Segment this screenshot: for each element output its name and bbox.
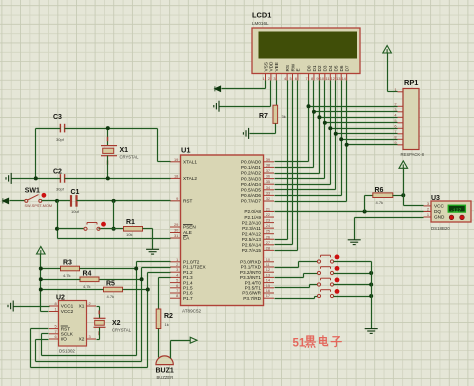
svg-text:DS1302: DS1302 (59, 349, 75, 354)
power terminal U3 (399, 161, 408, 169)
svg-text:P2.6/A14: P2.6/A14 (242, 243, 262, 248)
svg-text:30pf: 30pf (56, 187, 65, 192)
svg-text:P2.7/A15: P2.7/A15 (242, 248, 262, 253)
wire key 1 to rail (334, 261, 372, 263)
wire node D2 to RP1 pin 4 (320, 117, 398, 119)
wire power to RP1 pin 1 (387, 53, 389, 92)
svg-text:D6: D6 (339, 65, 344, 71)
mcu U1 body (181, 155, 264, 306)
svg-text:33: 33 (266, 190, 270, 195)
wire VCC rail (40, 254, 42, 312)
wire LCD D2 column to U1 P0.2 (319, 81, 321, 174)
resistor R6 (373, 193, 393, 198)
wire P1.2 to RST bus (148, 272, 171, 274)
wire C3 row (36, 128, 61, 130)
svg-text:38: 38 (266, 162, 270, 167)
wire R2 to buzzer (158, 329, 160, 358)
svg-text:ALE: ALE (183, 230, 192, 235)
push button KEY2 (317, 267, 333, 275)
wire LCD VDD to ground (270, 81, 272, 107)
svg-text:P0.6/AD6: P0.6/AD6 (241, 193, 261, 198)
sensor U3 leds (449, 215, 454, 220)
svg-text:3: 3 (89, 334, 91, 339)
svg-text:AT89C52: AT89C52 (182, 309, 202, 314)
svg-text:RESPACK-8: RESPACK-8 (401, 152, 425, 157)
svg-text:39: 39 (266, 157, 270, 162)
junction D6 (339, 137, 343, 141)
push button reset (84, 223, 100, 231)
junction R6 VCC (401, 193, 405, 197)
svg-text:4.7k: 4.7k (376, 200, 384, 205)
crystal X2 (97, 306, 100, 308)
junction D2 (317, 115, 321, 119)
svg-text:GND: GND (434, 215, 445, 220)
svg-text:X1: X1 (79, 304, 85, 309)
wire node D6 to RP1 pin 8 (342, 139, 398, 141)
resistor R3 (61, 266, 80, 271)
svg-text:2: 2 (394, 102, 396, 107)
wire C2 row (12, 178, 61, 180)
wire LCD VSS to terminal (265, 81, 267, 89)
wire node D5 to RP1 pin 7 (336, 133, 398, 135)
svg-text:25: 25 (266, 229, 270, 234)
ground keys (365, 329, 378, 334)
wire LCD D7 column to U1 P0.7 (346, 81, 348, 202)
junction key rail 3 (369, 283, 373, 287)
wire R7 to ground (275, 124, 277, 134)
junction D7 (345, 143, 349, 147)
wire R1 to ground (143, 228, 153, 230)
wire key 4 to rail (334, 296, 372, 298)
svg-text:10k: 10k (126, 232, 132, 237)
svg-text:51: 51 (293, 338, 306, 350)
svg-text:17: 17 (266, 293, 270, 298)
junction key rail 4 (369, 294, 373, 298)
svg-text:6: 6 (295, 76, 297, 81)
svg-text:RS: RS (285, 65, 290, 72)
svg-text:12: 12 (331, 76, 335, 81)
wire node D7 to RP1 pin 9 (347, 144, 398, 146)
crystal X1 (107, 129, 109, 146)
wire LCD D4 column to U1 P0.4 (330, 81, 332, 185)
svg-text:P0.4/AD4: P0.4/AD4 (241, 182, 261, 187)
svg-text:3: 3 (273, 76, 275, 81)
wire node D4 to RP1 pin 6 (331, 128, 398, 130)
svg-text:LM016L: LM016L (252, 21, 269, 26)
svg-text:U1: U1 (181, 146, 190, 155)
svg-text:8: 8 (394, 135, 396, 140)
LCD pin stubs and numbers (263, 74, 347, 81)
svg-text:P2.0/A8: P2.0/A8 (244, 209, 261, 214)
svg-text:3k: 3k (282, 114, 286, 119)
rtc U2 body (59, 301, 87, 347)
svg-text:2: 2 (89, 301, 91, 306)
svg-text:R6: R6 (375, 187, 384, 194)
svg-text:XTAL1: XTAL1 (183, 160, 197, 165)
wire P1.0 to SCLK bus (137, 261, 171, 263)
svg-text:36: 36 (266, 174, 270, 179)
svg-text:P2.2/A10: P2.2/A10 (242, 220, 262, 225)
svg-text:1k: 1k (165, 322, 169, 327)
svg-text:RST: RST (183, 199, 193, 204)
rtc U2 pins (49, 301, 96, 342)
svg-text:5: 5 (290, 76, 292, 81)
svg-text:P1.7: P1.7 (183, 296, 193, 301)
junction RST node (112, 199, 116, 203)
svg-text:P3.7/RD: P3.7/RD (243, 296, 261, 301)
svg-text:9: 9 (176, 196, 178, 201)
svg-text:4.7k: 4.7k (83, 284, 91, 289)
svg-text:2: 2 (427, 207, 429, 212)
wire LCD D0 column to U1 P0.0 (308, 81, 310, 162)
svg-text:8: 8 (55, 301, 57, 306)
junction key rail 2 (369, 271, 373, 275)
svg-text:1: 1 (55, 307, 57, 312)
wire U1 P3.7 to key 4 (275, 298, 315, 300)
svg-text:P0.3/AD3: P0.3/AD3 (241, 176, 261, 181)
svg-text:VCC1: VCC1 (61, 304, 74, 309)
wire LCD D1 column to U1 P0.1 (313, 81, 315, 168)
respack RP1 pin stubs (394, 87, 403, 145)
wire node D1 to RP1 pin 3 (314, 111, 398, 113)
svg-text:19: 19 (174, 157, 178, 162)
wire C1 to RST (77, 200, 171, 202)
wire P2.0 to DQ (275, 211, 424, 213)
svg-text:5: 5 (394, 118, 396, 123)
svg-text:D7: D7 (344, 65, 349, 71)
junction D1 (312, 110, 316, 114)
junction DQ R6 tap (363, 210, 367, 214)
svg-text:27: 27 (266, 240, 270, 245)
wire RST node down (113, 201, 115, 229)
wire EA row (58, 238, 171, 240)
junction C2 left (34, 176, 38, 180)
sensor U3 display (448, 205, 465, 212)
resistor R4 (80, 277, 99, 282)
svg-text:P0.0/AD0: P0.0/AD0 (241, 160, 261, 165)
ground R1 (146, 249, 159, 254)
push button KEY4 (317, 290, 333, 298)
respack RP1 body (403, 89, 419, 150)
mcu U1 left pins (170, 157, 207, 301)
svg-text:D3: D3 (323, 65, 328, 71)
svg-text:VSS: VSS (263, 62, 268, 71)
ground U3 (348, 240, 361, 245)
junction D4 (328, 126, 332, 130)
wire node D0 to RP1 pin 2 (309, 106, 398, 108)
svg-text:1: 1 (427, 212, 429, 217)
resistor R2 (156, 309, 161, 329)
wire R4 row (41, 279, 81, 281)
svg-text:13: 13 (336, 76, 340, 81)
wire LCD RS to U1 P2.5 (287, 81, 289, 240)
wire LCD D5 column to U1 P0.5 (335, 81, 337, 190)
wire reset button row (58, 228, 85, 230)
wire LCD E to U1 P2.7 (297, 81, 299, 251)
LCD LCD1 screen (259, 32, 358, 59)
svg-text:VCC2: VCC2 (61, 309, 74, 314)
wire U2 VCC1 to ground (14, 306, 50, 308)
wire node D3 to RP1 pin 5 (325, 122, 398, 124)
svg-text:28: 28 (266, 245, 270, 250)
svg-text:VCC: VCC (434, 204, 445, 209)
svg-text:23: 23 (266, 218, 270, 223)
svg-text:2: 2 (268, 76, 270, 81)
svg-text:DQ: DQ (434, 209, 441, 214)
svg-text:U3: U3 (431, 195, 440, 202)
svg-text:D5: D5 (334, 65, 339, 71)
wire LCD VEE to R7 (276, 81, 278, 106)
svg-text:8: 8 (176, 293, 178, 298)
svg-text:3: 3 (394, 107, 396, 112)
svg-text:R2: R2 (164, 313, 173, 320)
svg-text:RP1: RP1 (404, 78, 418, 87)
wire key 3 to rail (334, 284, 372, 286)
svg-text:P2.1/A9: P2.1/A9 (244, 215, 261, 220)
wire R3 row (41, 268, 61, 270)
wire P1.1 to IO bus (142, 267, 171, 269)
svg-text:XTAL2: XTAL2 (183, 176, 197, 181)
LCD pin names (263, 61, 349, 72)
svg-text:VEE: VEE (274, 62, 279, 71)
wire buzzer to terminal (170, 341, 172, 359)
ground VDD (214, 101, 219, 112)
svg-text:R5: R5 (106, 281, 115, 288)
svg-text:7: 7 (394, 129, 396, 134)
wire LCD RW to U1 P2.6 (292, 81, 294, 245)
svg-text:4.7k: 4.7k (107, 294, 115, 299)
svg-text:E: E (296, 68, 301, 71)
svg-text:BUZ1: BUZ1 (156, 368, 174, 375)
ground C2 (6, 173, 11, 184)
svg-text:C1: C1 (71, 189, 80, 196)
svg-text:30pf: 30pf (56, 137, 65, 142)
wire U1 P3.3 to key 2 (275, 277, 304, 279)
svg-text:32: 32 (266, 196, 270, 201)
svg-text:-127: -127 (450, 207, 461, 213)
wire U1 P3.5 to key 3 (275, 287, 310, 289)
svg-text:EA: EA (183, 236, 190, 241)
svg-text:D0: D0 (306, 65, 311, 71)
wire LCD D3 column to U1 P0.3 (324, 81, 326, 179)
svg-text:RW: RW (290, 63, 295, 71)
junction D5 (334, 132, 338, 136)
wire U3 GND to ground (355, 217, 424, 219)
power terminal VCC rail (37, 247, 46, 255)
svg-text:P0.2/AD2: P0.2/AD2 (241, 171, 261, 176)
wire LCD D6 column to U1 P0.6 (341, 81, 343, 196)
svg-text:9: 9 (394, 140, 396, 145)
svg-text:P2.3/A11: P2.3/A11 (242, 226, 261, 231)
wire R6 left leg (364, 196, 366, 212)
svg-text:U2: U2 (56, 295, 65, 302)
push button KEY3 (317, 278, 333, 286)
svg-text:R7: R7 (259, 113, 268, 120)
wire C3 to XTAL1 (157, 129, 159, 162)
svg-text:6: 6 (394, 124, 396, 129)
LCD LCD1 body (252, 28, 360, 74)
wire R6 right leg (393, 195, 404, 197)
svg-text:P0.1/AD1: P0.1/AD1 (241, 165, 261, 170)
svg-text:R3: R3 (63, 260, 72, 267)
svg-text:BUZZER: BUZZER (157, 375, 174, 380)
svg-text:C3: C3 (53, 114, 62, 121)
wire C3 left vertical (35, 129, 37, 179)
svg-text:P0.7/AD7: P0.7/AD7 (241, 199, 261, 204)
svg-text:SW-SPST-MOM: SW-SPST-MOM (25, 204, 53, 208)
push button KEY1 (317, 255, 333, 263)
wire to R1 (114, 228, 124, 230)
resistor R7 (273, 105, 278, 123)
svg-text:D4: D4 (328, 65, 333, 71)
svg-text:18: 18 (174, 173, 178, 178)
svg-text:P2.5/A13: P2.5/A13 (242, 237, 262, 242)
svg-text:R4: R4 (83, 270, 92, 277)
svg-text:CRYSTAL: CRYSTAL (112, 328, 132, 333)
wire SW1 to C1 (42, 200, 71, 202)
svg-text:R1: R1 (126, 219, 135, 226)
junction D3 (323, 121, 327, 125)
svg-text:P2.4/A12: P2.4/A12 (242, 231, 262, 236)
wire U1 P3.1 to key 1 (275, 267, 299, 269)
svg-text:X1: X1 (120, 147, 129, 154)
mcu U1 right pins (240, 157, 274, 301)
svg-text:8: 8 (311, 76, 313, 81)
svg-text:D1: D1 (312, 65, 317, 71)
ground U2 VCC1 (8, 301, 13, 312)
svg-text:LCD1: LCD1 (252, 11, 271, 20)
svg-text:CRYSTAL: CRYSTAL (120, 155, 140, 160)
wire SW1 node down (57, 201, 59, 239)
svg-text:VDD: VDD (269, 61, 274, 72)
svg-text:X2: X2 (79, 337, 85, 342)
svg-text:I/O: I/O (61, 337, 68, 342)
svg-text:1: 1 (263, 76, 265, 81)
buzzer BUZ1 (156, 356, 173, 365)
junction SW1 node (55, 199, 59, 203)
svg-text:37: 37 (266, 168, 270, 173)
power terminal RP1 (383, 46, 392, 54)
resistor R5 (104, 287, 123, 292)
svg-text:4.7k: 4.7k (63, 273, 71, 278)
svg-text:31: 31 (174, 233, 178, 238)
terminal arrow VSS (215, 86, 221, 92)
sensor U3 body (431, 201, 471, 222)
ground R7 (243, 128, 248, 139)
svg-text:DS18B20: DS18B20 (431, 226, 450, 231)
sensor U3 pins (424, 201, 446, 220)
resistor R1 (124, 227, 143, 232)
wire key 2 to rail (334, 273, 372, 275)
wire key rail (371, 262, 373, 329)
svg-text:7: 7 (306, 76, 308, 81)
svg-text:22: 22 (266, 212, 270, 217)
svg-text:P0.5/AD5: P0.5/AD5 (241, 188, 261, 193)
wire R5 row (41, 289, 104, 291)
svg-text:11: 11 (325, 76, 329, 81)
svg-text:9: 9 (316, 76, 318, 81)
svg-text:PSEN: PSEN (183, 225, 196, 230)
svg-text:D2: D2 (317, 65, 322, 71)
svg-text:6: 6 (55, 334, 57, 339)
svg-text:X2: X2 (112, 320, 121, 327)
terminal arrow buzzer (190, 337, 197, 343)
svg-text:SW1: SW1 (25, 188, 40, 195)
svg-text:10uf: 10uf (71, 209, 80, 214)
svg-text:3: 3 (427, 201, 429, 206)
wire P1.3 to R2 (159, 277, 171, 279)
svg-text:35: 35 (266, 179, 270, 184)
svg-text:29: 29 (174, 222, 178, 227)
wire power to U3 VCC (403, 168, 405, 206)
junction D0 (307, 104, 311, 108)
svg-text:21: 21 (266, 207, 270, 212)
svg-text:26: 26 (266, 234, 270, 239)
